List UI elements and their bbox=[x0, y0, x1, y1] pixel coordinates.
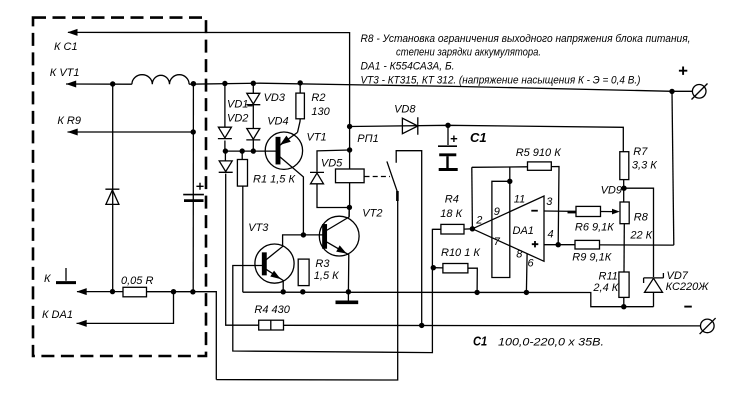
resistor R7 bbox=[620, 152, 629, 180]
contact blob bbox=[396, 191, 399, 201]
resistor R8 potentiometer bbox=[620, 202, 629, 224]
minus terminal bbox=[701, 319, 715, 333]
svg-text:8: 8 bbox=[516, 249, 523, 261]
wire left riser B bbox=[192, 84, 194, 292]
wire pin6 bbox=[525, 254, 528, 293]
wire R8-R11 vertical bbox=[623, 224, 625, 272]
resistor 0,05R bbox=[123, 287, 147, 297]
svg-text:R11: R11 bbox=[599, 271, 618, 283]
node VT2 emitter ground bbox=[346, 289, 351, 294]
CAPACITORS & GROUNDS & TERMINALS bbox=[56, 67, 716, 335]
svg-text:VT3 - КТ315, КТ 312. (напряжен: VT3 - КТ315, КТ 312. (напряжение насыщен… bbox=[361, 75, 641, 87]
node relay coil bottom / VT2 collector bbox=[347, 205, 352, 210]
wire strobe rectangle bbox=[492, 181, 510, 277]
svg-text:КС220Ж: КС220Ж bbox=[666, 281, 710, 293]
plus terminal bbox=[692, 85, 706, 99]
transistor VT3 bbox=[255, 244, 294, 283]
node R11 bottom bbox=[621, 304, 626, 309]
node VD9 / R7-R8 bbox=[621, 186, 626, 191]
svg-text:R4: R4 bbox=[445, 194, 459, 206]
wire R4-18K leads bbox=[433, 228, 473, 231]
svg-text:22 К: 22 К bbox=[629, 230, 652, 242]
node DA1 pin2 apex bbox=[470, 226, 475, 231]
svg-text:VD1: VD1 bbox=[227, 99, 248, 111]
diode VD8 bbox=[402, 117, 417, 134]
node shunt left bbox=[110, 289, 115, 294]
dashed enclosure box bbox=[33, 18, 206, 356]
wire R11 bottom lead bbox=[623, 297, 625, 306]
svg-text:R2: R2 bbox=[311, 92, 325, 104]
diode VD3 bbox=[246, 93, 260, 104]
wire plus bus right bbox=[672, 91, 674, 245]
wire rect riser bbox=[509, 167, 511, 181]
wire ground bus DA1 bbox=[243, 292, 654, 307]
svg-text:R5 910 К: R5 910 К bbox=[516, 147, 562, 159]
svg-text:VT3: VT3 bbox=[248, 222, 269, 234]
svg-text:7: 7 bbox=[494, 236, 501, 248]
svg-text:VD9: VD9 bbox=[601, 184, 622, 196]
wire R1 bottom lead bbox=[242, 186, 244, 292]
svg-text:РП1: РП1 bbox=[357, 133, 378, 145]
minus sign bottom bbox=[684, 306, 692, 308]
svg-text:130: 130 bbox=[311, 106, 330, 118]
node VD5 top bbox=[347, 147, 352, 152]
node R3 bottom ground bbox=[300, 289, 305, 294]
resistor R1 bbox=[237, 160, 247, 187]
wire bottom long low bbox=[216, 201, 397, 380]
wire pin3 out bbox=[544, 210, 576, 212]
wire K R9 bbox=[68, 131, 194, 133]
ground under VT2 bbox=[347, 292, 349, 301]
node cap column bottom bbox=[190, 289, 195, 294]
capacitor in left box bbox=[183, 194, 204, 196]
arrow K C1 bbox=[67, 29, 77, 36]
TRANSISTORS bbox=[255, 132, 359, 292]
diode VD1 (left column upper) bbox=[218, 127, 232, 138]
svg-text:R6 9,1К: R6 9,1К bbox=[575, 221, 614, 233]
resistor R5 bbox=[528, 162, 552, 170]
thick segment pin3 bbox=[568, 211, 577, 214]
wire R7 link down bbox=[623, 180, 625, 202]
wire R2 leads bbox=[298, 83, 301, 132]
resistor R3 bbox=[298, 259, 309, 286]
wire 0.05R rail bbox=[77, 292, 216, 380]
node C1 top bbox=[445, 123, 450, 128]
wire relay coil vertical bbox=[349, 127, 351, 208]
wire R1 top lead bbox=[241, 151, 243, 159]
wire VT2 collector link bbox=[348, 207, 350, 216]
svg-text:К: К bbox=[44, 273, 51, 285]
wire mid low bbox=[233, 229, 433, 353]
node VD4 cathode / VT1 base bbox=[251, 148, 256, 153]
svg-text:VD8: VD8 bbox=[394, 103, 416, 115]
arrow K gnd bbox=[77, 288, 87, 295]
diode VD5 bbox=[310, 172, 324, 183]
node VT2 base / R3 top bbox=[301, 232, 306, 237]
svg-text:R10 1 К: R10 1 К bbox=[441, 247, 480, 259]
svg-text:R8: R8 bbox=[634, 212, 649, 224]
wire VD9 branch bbox=[624, 188, 654, 307]
node VD3 column top bbox=[251, 81, 256, 86]
wire K C1 top bbox=[68, 32, 350, 126]
capacitor C1 bbox=[438, 145, 457, 147]
wire VD3 column bbox=[252, 83, 254, 151]
DIODES bbox=[105, 93, 663, 292]
resistor R2 bbox=[296, 93, 305, 119]
svg-text:R9 9,1К: R9 9,1К bbox=[572, 252, 611, 264]
svg-text:6: 6 bbox=[528, 257, 535, 269]
svg-text:100,0-220,0 х 35В.: 100,0-220,0 х 35В. bbox=[498, 337, 604, 349]
node VD1 column top bbox=[222, 81, 227, 86]
svg-text:4: 4 bbox=[548, 229, 554, 241]
node strobe rect top bbox=[507, 179, 512, 184]
wire pin2 riser bbox=[471, 167, 474, 229]
svg-text:18 К: 18 К bbox=[440, 208, 462, 220]
node R2 top bbox=[298, 80, 303, 85]
svg-text:R8 - Установка ограничения вых: R8 - Установка ограничения выходного нап… bbox=[361, 33, 691, 45]
zener VD7 bbox=[644, 273, 664, 292]
svg-text:3: 3 bbox=[546, 196, 553, 208]
svg-text:9: 9 bbox=[494, 206, 500, 218]
node K DA1 tap bbox=[171, 289, 176, 294]
node pin4 / R5-R9 bbox=[556, 242, 561, 247]
svg-text:VD3: VD3 bbox=[264, 92, 286, 104]
svg-text:DA1 - К554СА3А, Б.: DA1 - К554СА3А, Б. bbox=[361, 61, 455, 73]
resistor R4-430 bbox=[259, 320, 284, 330]
resistor R9 bbox=[575, 240, 600, 249]
node VT3 emitter ground bbox=[281, 289, 286, 294]
wire minus bus bbox=[284, 324, 701, 327]
svg-text:R3: R3 bbox=[315, 258, 330, 270]
node K R9 tap bbox=[191, 129, 196, 134]
node VD8 anode tee bbox=[347, 124, 352, 129]
svg-text:3,3 К: 3,3 К bbox=[632, 159, 657, 171]
wire K DA1 bbox=[77, 292, 174, 324]
wire contact lever bbox=[387, 161, 398, 201]
wire left diode column lower bbox=[226, 174, 259, 326]
arrow K R9 bbox=[68, 129, 78, 136]
svg-text:R4 430: R4 430 bbox=[254, 304, 290, 316]
svg-text:2,4 К: 2,4 К bbox=[592, 282, 618, 294]
wire R6 to R8 bbox=[601, 211, 614, 213]
wire VD5 loop bbox=[317, 150, 350, 208]
wire relay contact frame bbox=[396, 151, 422, 326]
transistor VT1 bbox=[265, 132, 302, 169]
wire pin4 R9 bbox=[544, 244, 674, 246]
svg-text:К VT1: К VT1 bbox=[50, 67, 80, 79]
arrow K DA1 bbox=[77, 320, 87, 327]
svg-text:VT1: VT1 bbox=[307, 132, 327, 144]
DA1 comparator bbox=[472, 196, 544, 261]
ARROWS bbox=[66, 29, 620, 327]
svg-text:11: 11 bbox=[514, 194, 525, 206]
svg-text:VD5: VD5 bbox=[321, 157, 343, 169]
plus sign inside bbox=[532, 241, 539, 247]
transistor VT2 bbox=[319, 216, 359, 256]
svg-text:С1: С1 bbox=[470, 130, 487, 145]
minus sign inside bbox=[531, 210, 538, 212]
node R10 right ground bbox=[474, 290, 479, 295]
resistor R4-18K bbox=[441, 224, 464, 234]
svg-text:1,5 К: 1,5 К bbox=[314, 270, 339, 282]
diode VD4 bbox=[246, 129, 260, 140]
node top wire / left riser bbox=[110, 81, 115, 86]
resistor R10 bbox=[443, 264, 468, 273]
svg-text:R1 1,5 К: R1 1,5 К bbox=[253, 173, 295, 185]
wire relay link dashed bbox=[365, 176, 391, 178]
resistor R6 bbox=[576, 206, 601, 216]
svg-text:DA1: DA1 bbox=[513, 225, 534, 237]
svg-text:К DA1: К DA1 bbox=[42, 309, 73, 321]
svg-text:степени зарядки аккумулятора.: степени зарядки аккумулятора. bbox=[396, 47, 541, 59]
svg-text:К R9: К R9 bbox=[57, 115, 81, 127]
inductor L coil bbox=[132, 75, 189, 85]
node VD1-VD2 junction bbox=[223, 148, 228, 153]
wire R10 leads bbox=[433, 268, 477, 293]
wire VD8 net bbox=[350, 125, 624, 151]
svg-text:0,05 R: 0,05 R bbox=[121, 275, 153, 287]
wire top main horizontal bbox=[66, 83, 692, 91]
diode VD2 (left column lower) bbox=[219, 161, 233, 172]
WIRES-MAIN bbox=[66, 32, 700, 380]
node R1 top bbox=[240, 148, 245, 153]
node contact rail / minus bus bbox=[419, 323, 424, 328]
wire left diode column upper bbox=[224, 84, 227, 161]
wire C1 cap lead bbox=[447, 125, 449, 145]
node pin6 ground bbox=[524, 290, 529, 295]
node plus terminal tee bbox=[669, 89, 674, 94]
resistor R11 bbox=[619, 272, 629, 297]
svg-text:VT2: VT2 bbox=[362, 207, 382, 219]
arrow K VT1 bbox=[66, 81, 76, 88]
wire base VT1 rail bbox=[225, 150, 276, 152]
arrow R6 wiper bbox=[612, 209, 620, 215]
svg-text:К С1: К С1 bbox=[54, 41, 78, 53]
plus sign top bbox=[679, 67, 687, 75]
node R10 left bbox=[431, 265, 436, 270]
wire left riser A bbox=[112, 84, 114, 292]
diode in left box bbox=[105, 189, 119, 204]
svg-text:VD4: VD4 bbox=[267, 115, 288, 127]
svg-text:VD2: VD2 bbox=[227, 113, 248, 125]
svg-text:С1: С1 bbox=[473, 334, 487, 349]
relay coil RP1 box bbox=[336, 169, 365, 183]
ground at K label bbox=[65, 268, 67, 281]
wire R5 feedback bbox=[472, 167, 559, 245]
node coil right bbox=[191, 81, 196, 86]
svg-text:R7: R7 bbox=[633, 146, 648, 158]
svg-text:2: 2 bbox=[475, 215, 482, 227]
